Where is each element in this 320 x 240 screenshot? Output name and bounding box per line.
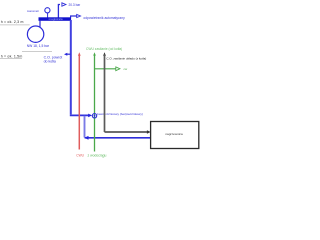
arrow black up [103,52,106,55]
manometer gauge M1 [45,8,50,13]
svg-text:z wodociągu: z wodociągu [88,153,107,157]
wire CO supply black line [104,54,106,132]
svg-text:20.3 bar: 20.3 bar [69,3,82,7]
wire air-vent stub [71,16,77,18]
arrow pressure [62,3,66,6]
arrow to valve [88,114,92,118]
arrow black right [147,130,151,134]
wire leader line vessel [22,51,52,53]
wire leader line 2 [0,58,22,60]
wire riser bottom elbow [70,114,89,116]
arrow green cw [116,67,120,71]
wire blue down branch [84,116,86,138]
wire green branch cw [95,68,116,70]
arrow CO return [64,53,67,56]
svg-text:CWU zasilanie (od kotła): CWU zasilanie (od kotła) [86,47,122,51]
valve ring V1 [92,114,96,118]
wire blue to heat exchanger [85,137,151,139]
wire cold water green line [94,54,96,151]
wire CWU red line [78,54,80,149]
svg-text:odpowietrznik automatyczny: odpowietrznik automatyczny [83,16,125,20]
valve dot [94,115,96,117]
arrow green up [93,52,96,55]
manifold bar [39,17,72,21]
wire CO return branch [66,53,70,55]
arrow air-vent [77,14,81,17]
svg-text:NW 18, 1,5 bar: NW 18, 1,5 bar [27,44,50,48]
svg-text:h = ok. 2,3 m: h = ok. 2,3 m [1,20,24,24]
wire leader line 1 [0,24,30,26]
svg-text:magistrala: magistrala [49,17,63,21]
arrow red up [78,52,81,56]
arrow blue left [84,136,88,140]
svg-text:nagrzewnica: nagrzewnica [165,132,183,136]
wire vessel stem [39,21,41,27]
svg-text:manometr: manometr [27,9,39,13]
expansion vessel [27,26,43,42]
wire black to heat exchanger [105,131,148,133]
heat exchanger box U1 [151,122,199,149]
wire manometer stem [47,13,49,18]
svg-text:do kotła: do kotła [44,60,56,64]
wire main riser CO [70,20,72,114]
svg-text:CWU: CWU [76,153,84,157]
svg-text:h = ok. 1,5m: h = ok. 1,5m [1,55,23,59]
svg-text:C.O. zasilanie układu (z kotła: C.O. zasilanie układu (z kotła) [106,56,146,60]
wire pressure tap elbow [58,5,60,18]
